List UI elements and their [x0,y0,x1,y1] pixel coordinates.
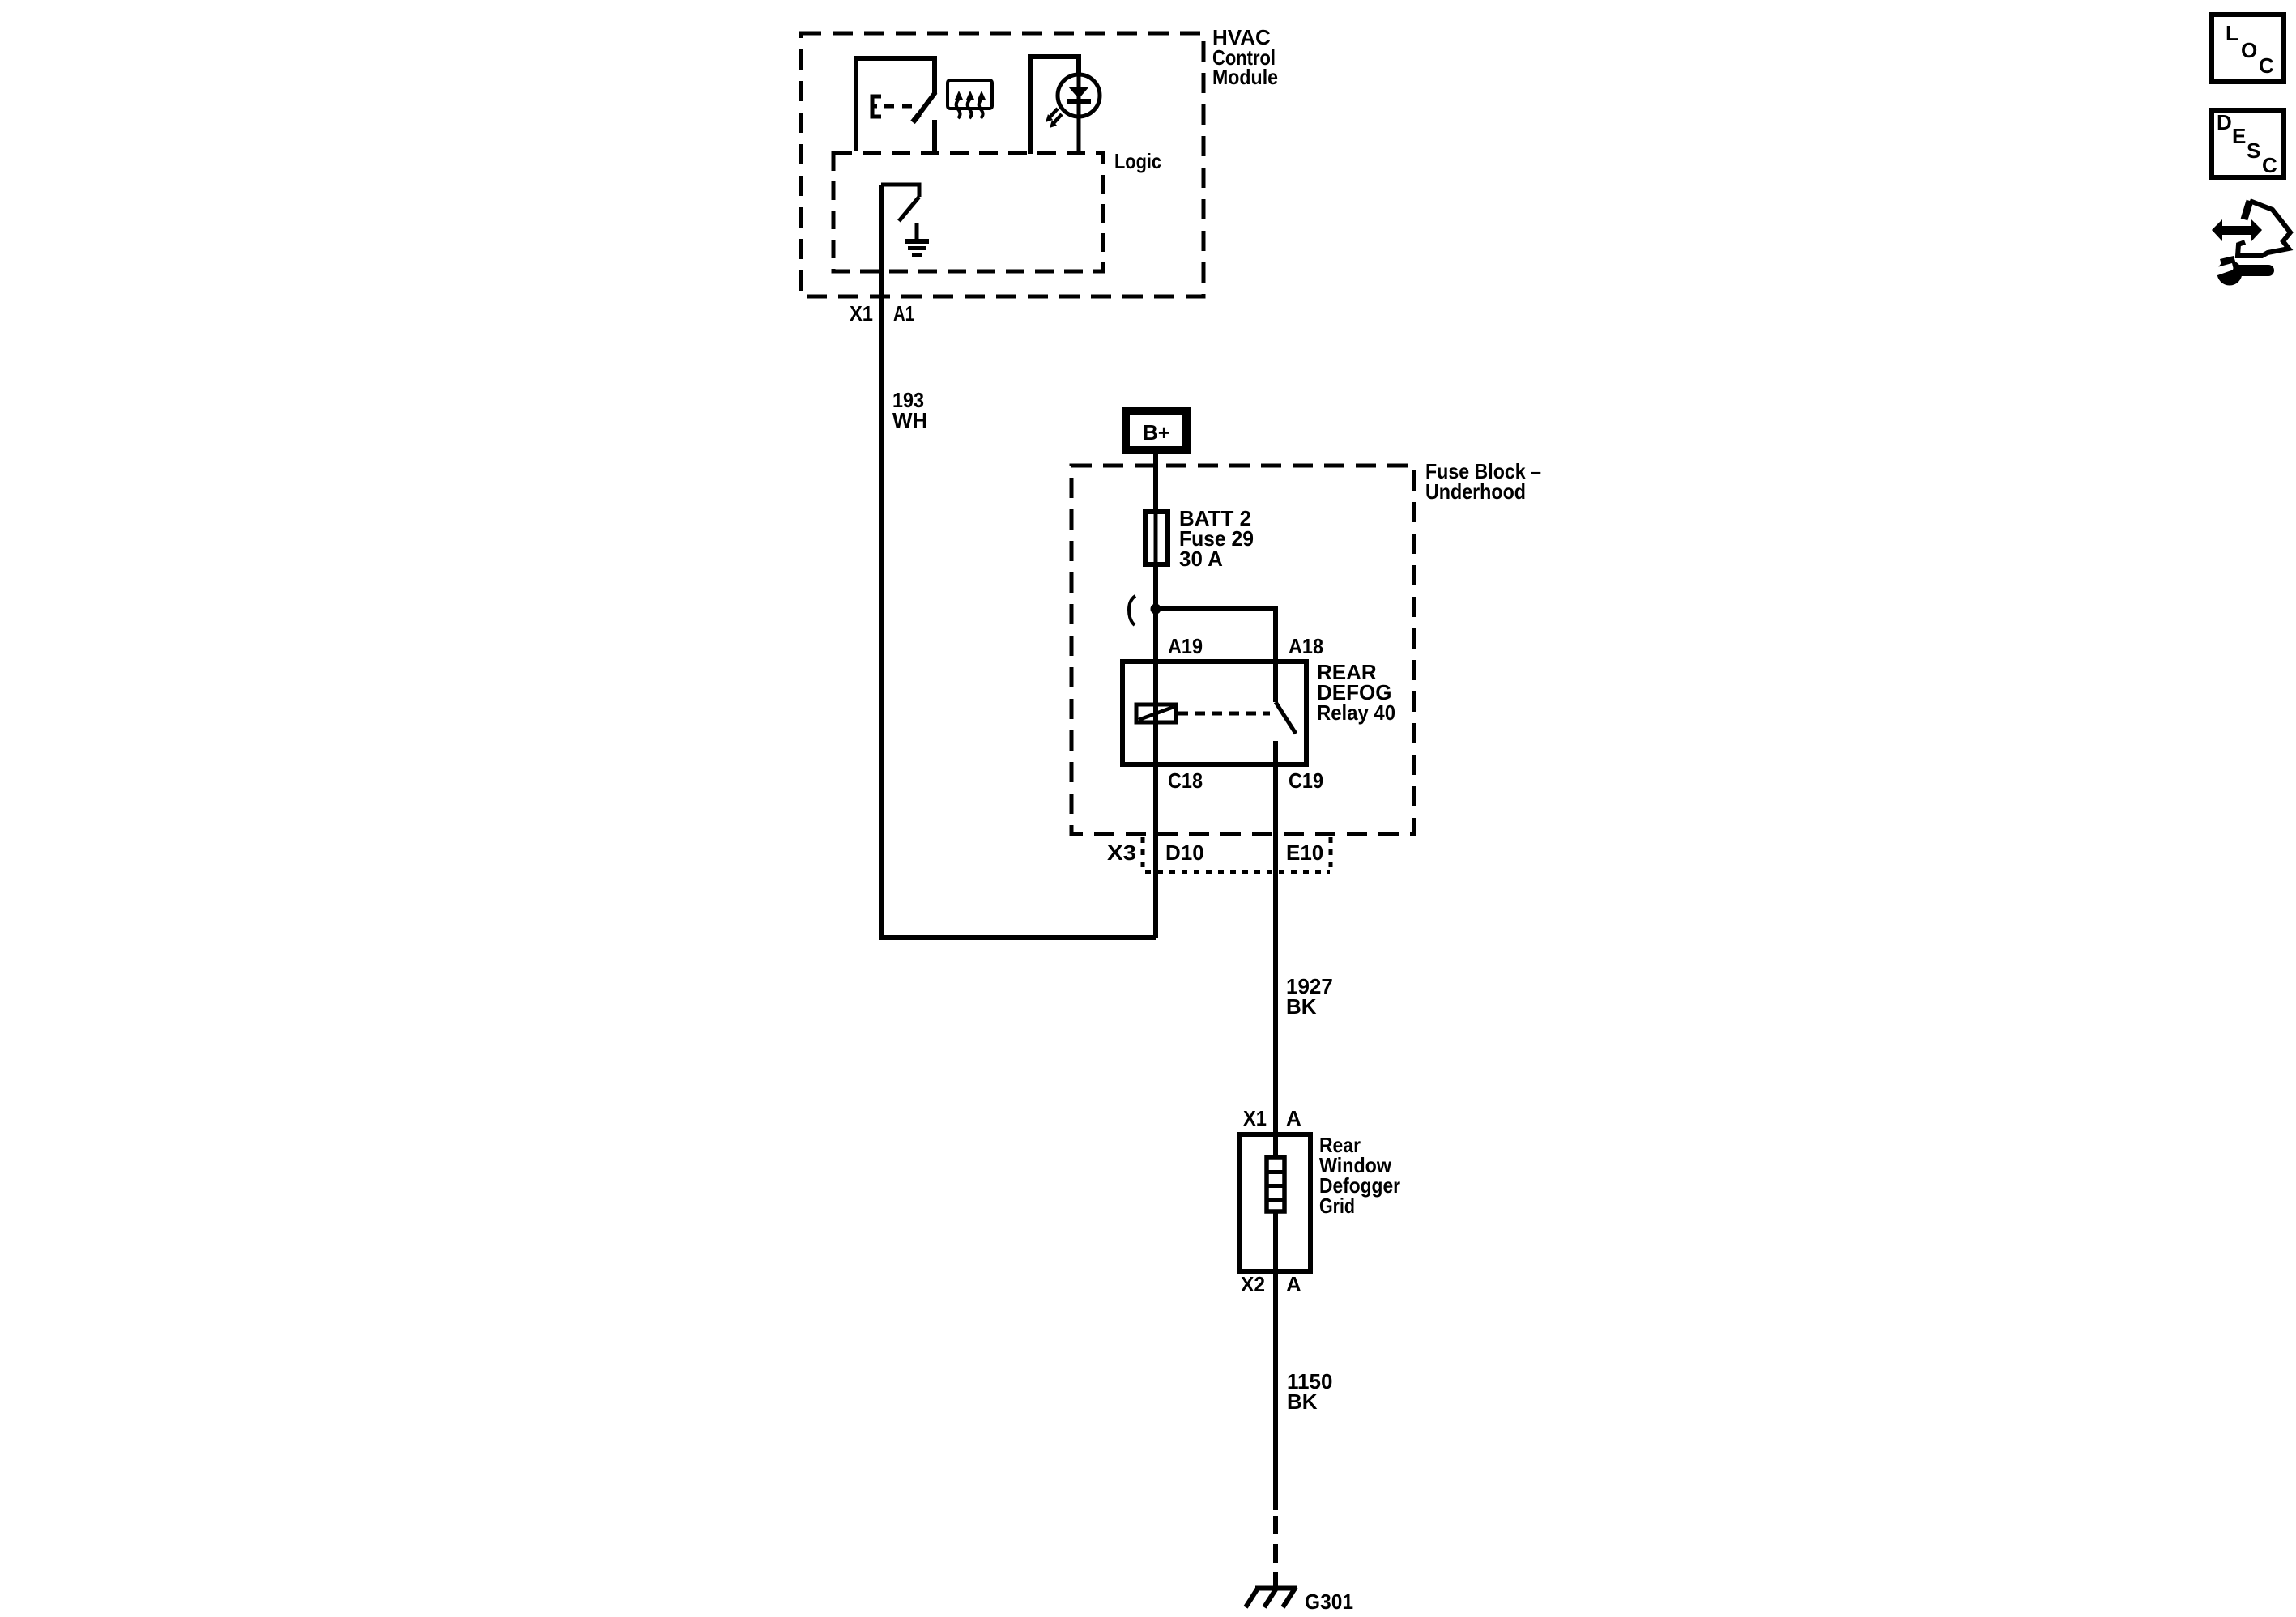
relay box REAR DEFOG Relay 40 [1122,662,1306,764]
wire C19/E10 down to grid [1273,741,1278,1134]
svg-text:30 A: 30 A [1179,547,1223,571]
LED circle [1058,74,1100,117]
svg-text:A1: A1 [893,301,914,326]
svg-text:A: A [1286,1106,1301,1130]
svg-text:C18: C18 [1168,768,1203,793]
svg-text:G301: G301 [1305,1589,1353,1614]
navigation icon: double arrow [2212,219,2262,241]
grid heating element [1267,1157,1284,1211]
svg-text:BK: BK [1287,1389,1318,1414]
LED indicator box [1030,57,1079,154]
svg-text:O: O [2241,38,2257,62]
logic switch to ground [881,185,919,197]
wire A1 down from HVAC module [879,185,884,938]
Logic dashed box [833,153,1103,271]
svg-text:Relay 40: Relay 40 [1317,700,1395,725]
svg-text:B+: B+ [1143,420,1170,445]
wire loop bottom segment [879,935,1156,940]
LED light arrow 1 [1050,109,1058,117]
svg-text:BK: BK [1286,994,1317,1019]
navigation icon: panel outline [2244,201,2250,219]
svg-text:C: C [2259,53,2274,78]
svg-text:X1: X1 [850,301,873,326]
Fuse Block - Underhood dashed box [1071,466,1414,834]
DESC navigation box [2212,110,2284,177]
svg-text:X2: X2 [1241,1272,1265,1296]
grid wire through box [1273,1134,1278,1271]
svg-text:Logic: Logic [1114,149,1161,173]
svg-text:A19: A19 [1168,634,1203,658]
wavy arrow 3 [979,99,983,118]
dashed wire to ground [1273,1516,1278,1586]
wire D10 up to relay C18 [1153,764,1158,938]
svg-text:WH: WH [892,408,927,432]
svg-text:C19: C19 [1289,768,1323,793]
rear window defogger grid box [1240,1134,1310,1271]
svg-text:Module: Module [1212,65,1278,89]
svg-text:L: L [2226,21,2238,45]
wavy arrow 1 [956,99,961,118]
svg-text:D: D [2217,110,2232,134]
svg-text:E10: E10 [1286,840,1323,865]
branch wire to A18 [1156,609,1276,702]
junction dot [1151,604,1161,615]
switch lever S1 [916,92,935,118]
switch contact stub [932,120,937,154]
X3 connector [1141,837,1145,868]
relay dashed link [1178,712,1270,716]
wire B+ down [1153,454,1158,764]
current hook symbol [1129,596,1135,625]
svg-text:E: E [2232,124,2246,148]
relay switch lever [1276,702,1296,734]
svg-text:S: S [2247,138,2260,163]
ground (logic) [915,223,919,240]
LED diode triangle [1068,87,1089,99]
heater indicator icon [948,80,992,109]
ground G301 [1255,1586,1297,1591]
svg-text:A: A [1286,1272,1301,1296]
svg-text:D10: D10 [1165,840,1204,865]
svg-text:C: C [2262,153,2277,177]
LED cathode bar [1067,99,1091,104]
B+ terminal [1126,411,1186,450]
wavy arrow 2 [968,99,972,118]
navigation icon: wrench [2217,261,2243,286]
svg-text:X3: X3 [1107,840,1136,865]
dashed actuating link [884,104,914,109]
HVAC Control Module dashed box [801,33,1203,296]
svg-text:Grid: Grid [1319,1194,1355,1218]
relay coil [1136,704,1176,722]
E bracket (connector symbol) [872,96,881,117]
defog switch box S1 [856,58,935,151]
svg-text:A18: A18 [1289,634,1323,658]
svg-text:Underhood: Underhood [1425,479,1526,504]
LED light arrow 2 [1054,114,1062,123]
svg-text:X1: X1 [1243,1106,1267,1130]
fuse BATT 2 Fuse 29 30 A [1145,512,1168,564]
wire X2 down [1273,1271,1278,1510]
LOC navigation box [2212,15,2284,82]
